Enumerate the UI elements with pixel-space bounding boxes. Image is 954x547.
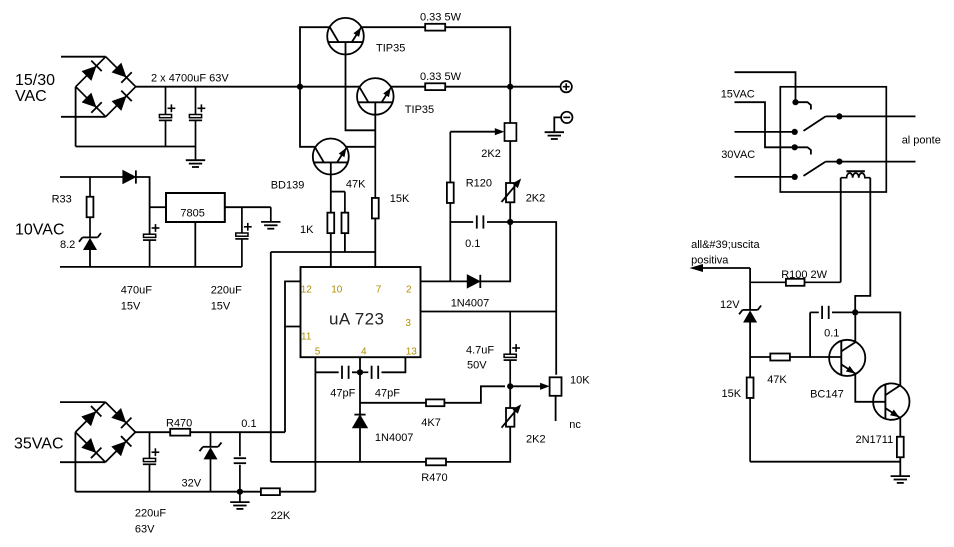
wire BC147 collector up <box>854 312 856 342</box>
contact hook 1 <box>796 102 811 109</box>
svg-text:15K: 15K <box>722 388 742 400</box>
wire diode to x510 up <box>481 222 510 281</box>
ground 35V section <box>230 492 249 509</box>
wire 35VAC input bottom <box>60 461 105 463</box>
pot 2K2 #2 <box>502 404 522 428</box>
svg-text:1N4007: 1N4007 <box>375 432 414 444</box>
trimmer 2K2 top <box>505 123 517 141</box>
label 0.33 5W #1 <box>420 12 462 24</box>
wire sel output B <box>826 161 916 163</box>
label 2 x 4700uF 63V <box>151 73 229 85</box>
wire zener to 47K node <box>749 322 751 377</box>
wire pin4 to 4K7 <box>360 402 426 404</box>
wire 0.1 branch up <box>809 312 811 357</box>
node contact 4 <box>792 174 798 180</box>
svg-text:15VAC: 15VAC <box>721 88 755 100</box>
contact hook 3 <box>795 147 811 154</box>
wire 47K to rail252 <box>344 233 346 252</box>
svg-text:12: 12 <box>301 284 313 295</box>
wire cap2 to pin13 <box>382 357 406 372</box>
wire pins 12-11 tie <box>285 281 301 326</box>
node contact 1 <box>792 99 798 105</box>
wire 7805 gnd pin <box>194 222 196 267</box>
label 47K right <box>767 374 787 386</box>
capacitor 470uF <box>143 224 159 267</box>
label 35VAC <box>14 436 64 453</box>
label 10VAC <box>15 222 65 239</box>
wire coil left lead <box>840 178 842 283</box>
svg-text:TIP35: TIP35 <box>405 104 434 116</box>
label 4.7uF 50V <box>466 345 494 372</box>
svg-text:TIP35: TIP35 <box>376 43 405 55</box>
wire R0.33#2 to output node <box>445 86 561 88</box>
capacitor 47pF #1 <box>342 366 349 379</box>
wire pot2 top to node386 <box>509 386 511 408</box>
svg-text:0.1: 0.1 <box>465 238 480 250</box>
ground at 7805 output <box>261 207 280 229</box>
resistor 22K <box>261 488 280 495</box>
wire bottom rail B1 <box>76 146 196 148</box>
svg-text:R100 2W: R100 2W <box>781 269 827 281</box>
capacitor 0.1 right <box>810 306 855 319</box>
wire 10K wiper arrow <box>510 383 549 390</box>
wire BD139 base down <box>330 162 332 212</box>
wire pin11 net down to 35V rail <box>284 327 286 433</box>
label 470uF 15V <box>121 285 152 313</box>
transistor Q4 BC147 <box>829 340 865 376</box>
svg-text:22K: 22K <box>271 510 291 522</box>
pin 10 <box>331 284 343 295</box>
wire R0.33#1 to node <box>445 27 510 87</box>
svg-text:2K2: 2K2 <box>481 148 501 160</box>
label 2K2 pot1 <box>526 193 546 205</box>
svg-text:7: 7 <box>376 284 382 295</box>
svg-text:1N4007: 1N4007 <box>451 298 490 310</box>
label all uscita positiva <box>691 239 760 267</box>
label 10K <box>570 375 590 387</box>
wire rail to TIP35 Q1 <box>300 27 330 86</box>
terminal + output <box>561 81 572 92</box>
wire B2 minus down <box>74 432 76 492</box>
label 220uF 15V <box>211 285 242 313</box>
svg-text:15V: 15V <box>121 301 141 313</box>
node x510 y386 <box>507 383 513 389</box>
transistor Q2 TIP35 <box>357 78 394 115</box>
pin 7 <box>376 284 382 295</box>
svg-text:4K7: 4K7 <box>421 417 441 429</box>
wire bottom R470 rail <box>271 461 426 463</box>
wire pin4 lead <box>359 357 361 414</box>
svg-text:R33: R33 <box>52 194 72 206</box>
capacitor 0.1 ref <box>450 215 510 228</box>
wire - terminal to ground <box>554 117 561 132</box>
wire Q2 emitter to R 0.33 #2 <box>391 86 425 88</box>
svg-text:470uF: 470uF <box>121 285 152 297</box>
relay coil <box>841 171 871 178</box>
wire 35V rail A <box>135 431 285 433</box>
label 2N1711 <box>856 434 894 446</box>
label 0.33 5W #2 <box>420 71 462 83</box>
pin 3 <box>405 318 411 329</box>
wire 15/30VAC input top <box>61 56 106 58</box>
zener 12V <box>739 306 761 323</box>
pin 4 <box>361 346 367 357</box>
capacitor 0.1 35V <box>234 432 246 492</box>
svg-text:2N1711: 2N1711 <box>856 434 894 446</box>
ground below 4700uF <box>186 160 205 167</box>
svg-text:47pF: 47pF <box>375 388 400 400</box>
wire sel output A <box>826 115 916 117</box>
svg-text:2K2: 2K2 <box>526 193 546 205</box>
wire B1 minus to bottom rail <box>75 87 77 147</box>
resistor 1K <box>327 213 334 234</box>
wire BC147 emitter to 2N1711 base <box>855 374 885 402</box>
diode D1 series <box>123 170 136 183</box>
resistor 15K <box>372 147 379 219</box>
label 15VAC <box>721 88 755 100</box>
zener 32V <box>200 432 222 492</box>
wire node222 to 10K branch <box>510 222 556 375</box>
wire bottom return <box>750 461 900 463</box>
wire 35V bottom rail B <box>75 491 315 493</box>
wire rail to BD139 collector <box>300 87 315 147</box>
svg-text:12V: 12V <box>720 299 740 311</box>
wire pin3 out <box>421 311 557 313</box>
label R470 bottom <box>421 472 447 484</box>
svg-text:7805: 7805 <box>180 207 204 219</box>
node right 0.1 junction <box>852 309 858 315</box>
svg-text:0.1: 0.1 <box>824 328 839 340</box>
wire 15K to pin7 <box>374 219 376 268</box>
wire 2K2 trimmer chain <box>509 87 511 123</box>
wire corner to zener <box>749 268 751 310</box>
label BD139 <box>271 180 305 192</box>
label 47pF #2 <box>375 388 400 400</box>
svg-text:10VAC: 10VAC <box>15 222 65 239</box>
label 2K2 pot2 <box>526 434 546 446</box>
wire 4K7 up to node386 <box>444 386 505 403</box>
label 0.1 right <box>824 328 839 340</box>
capacitor 4700uF #2 <box>189 87 205 160</box>
capacitor 4700uF #1 <box>159 87 175 147</box>
svg-text:positiva: positiva <box>691 254 729 266</box>
node contact 2 <box>792 129 798 135</box>
svg-text:220uF: 220uF <box>211 285 242 297</box>
switch box <box>780 87 886 192</box>
wire output arrow <box>690 264 751 272</box>
wire zener to rail <box>89 249 91 267</box>
wire sel input 2 <box>735 102 795 147</box>
resistor 0.33 5W #1 <box>425 24 445 31</box>
label TIP35 #2 <box>405 104 434 116</box>
label 2K2 trimmer <box>481 148 501 160</box>
IC U1 uA723 box <box>301 267 421 357</box>
node 35V ground junction <box>237 489 243 495</box>
svg-text:4: 4 <box>361 346 367 357</box>
label 22K <box>271 510 291 522</box>
resistor 4K7 <box>426 399 444 406</box>
resistor R470 35V <box>170 429 190 436</box>
svg-text:32V: 32V <box>182 478 202 490</box>
wire coil right lead <box>855 178 870 313</box>
pin 13 <box>406 346 418 357</box>
svg-text:30VAC: 30VAC <box>721 149 755 161</box>
capacitor 220uF 15V <box>235 207 251 267</box>
svg-text:13: 13 <box>406 346 418 357</box>
diode 1N4007 bottom <box>353 415 368 428</box>
label 32V <box>182 478 202 490</box>
svg-text:10K: 10K <box>570 375 590 387</box>
wire 47pF chain left <box>315 371 338 373</box>
pot 10K <box>550 377 562 396</box>
label uA 723 <box>329 310 384 329</box>
label 1N4007 top <box>451 298 490 310</box>
resistor R470 bottom <box>426 459 446 466</box>
resistor R120 <box>447 132 454 222</box>
resistor R33 <box>87 177 94 237</box>
wire BD139 emitter to Q2 base <box>346 146 375 148</box>
pin 2 <box>406 284 412 295</box>
transistor Q3 BD139 <box>313 139 349 175</box>
label al ponte <box>902 134 941 146</box>
wire emitter res down <box>899 457 901 476</box>
label 0.1 ref <box>465 238 480 250</box>
label 4K7 <box>421 417 441 429</box>
svg-text:47K: 47K <box>767 374 787 386</box>
svg-text:uA 723: uA 723 <box>329 310 384 329</box>
wire pin5 down <box>314 357 316 492</box>
regulator 7805 <box>166 193 225 222</box>
node lever B pivot <box>836 159 842 165</box>
label 15K right <box>722 388 742 400</box>
svg-text:220uF: 220uF <box>135 508 166 520</box>
label 47K <box>346 179 366 191</box>
wire D1 to corner <box>136 177 149 234</box>
node rail junction at x300 <box>297 84 303 90</box>
svg-text:R470: R470 <box>166 417 192 429</box>
label BC147 <box>810 388 844 400</box>
wire 7805 output <box>226 206 271 208</box>
wire base jog to 47K <box>331 191 345 193</box>
wire 10VAC input top <box>60 176 123 178</box>
label 0.1 35V <box>241 418 256 430</box>
svg-text:50V: 50V <box>467 360 487 372</box>
svg-text:47K: 47K <box>346 179 366 191</box>
switch lever A <box>804 116 826 130</box>
pin 11 <box>301 331 312 342</box>
svg-text:15/30: 15/30 <box>15 72 55 89</box>
wire cap1 to node <box>352 371 360 373</box>
label nc <box>569 419 581 431</box>
svg-text:R470: R470 <box>421 472 447 484</box>
wire 10VAC bottom rail <box>60 266 242 268</box>
wire 47K to BC147 base <box>790 356 841 358</box>
svg-text:35VAC: 35VAC <box>14 436 64 453</box>
svg-text:47pF: 47pF <box>330 388 355 400</box>
resistor emitter 2N1711 <box>897 437 904 458</box>
label R100 2W <box>781 269 827 281</box>
pot 2K2 #1 <box>502 179 522 203</box>
wire to 7805 input <box>150 206 166 208</box>
svg-text:15K: 15K <box>390 193 410 205</box>
node contact 3 <box>792 144 798 150</box>
wire sel input 3 <box>735 131 795 133</box>
wire long vertical x270 <box>270 252 272 462</box>
bridge rectifier B1 (15/30VAC) <box>76 57 136 117</box>
diode 1N4007 pin2 <box>467 275 480 288</box>
switch lever B <box>804 162 826 176</box>
svg-text:63V: 63V <box>135 524 155 536</box>
wire Q1 emitter to R 0.33 #1 <box>361 26 425 28</box>
label R33 <box>52 194 72 206</box>
node output junction <box>507 84 513 90</box>
wire R470 to pot2 <box>446 427 510 462</box>
pin 5 <box>315 346 321 357</box>
resistor 15K right <box>747 377 754 461</box>
node x510 y222 <box>507 219 513 225</box>
svg-text:al ponte: al ponte <box>902 134 941 146</box>
bridge rectifier B2 (35VAC) <box>75 402 135 462</box>
resistor 0.33 5W #2 <box>425 83 445 90</box>
wire 10K nc <box>555 396 557 421</box>
resistor 47K <box>342 192 349 234</box>
ground at - terminal <box>545 132 564 139</box>
wire node to 2N1711 collector <box>855 312 900 386</box>
label 1N4007 bottom <box>375 432 414 444</box>
transistor Q5 2N1711 <box>873 383 909 419</box>
label 12V <box>720 299 740 311</box>
label 8.2 <box>60 239 75 251</box>
transistor Q1 TIP35 <box>327 18 364 55</box>
svg-text:5: 5 <box>315 346 321 357</box>
svg-text:8.2: 8.2 <box>60 239 75 251</box>
svg-text:1K: 1K <box>300 224 314 236</box>
svg-text:2 x 4700uF 63V: 2 x 4700uF 63V <box>151 73 229 85</box>
wire 2N1711 emitter <box>899 417 901 437</box>
node pin4 junction <box>357 369 363 375</box>
label 1K <box>300 224 314 236</box>
wire rail y252 <box>271 251 376 253</box>
zener 8.2V <box>79 233 101 250</box>
svg-text:4.7uF: 4.7uF <box>466 345 494 357</box>
wire pin2 out <box>421 280 468 282</box>
wire main + rail <box>136 86 360 88</box>
svg-text:15V: 15V <box>211 301 231 313</box>
svg-text:BC147: BC147 <box>810 388 844 400</box>
label TIP35 #1 <box>376 43 405 55</box>
label 220uF 63V <box>135 508 166 536</box>
wire diode to bottom wire <box>359 428 361 462</box>
svg-text:nc: nc <box>569 419 581 431</box>
terminal - output <box>561 112 572 123</box>
capacitor 220uF 63V <box>143 432 159 492</box>
wire 47K feed <box>750 356 770 358</box>
svg-text:0.1: 0.1 <box>241 418 256 430</box>
wire 1K to pin10 <box>330 233 332 267</box>
wire pot1 to node <box>509 202 511 222</box>
svg-text:10: 10 <box>331 284 343 295</box>
svg-text:all&#39;uscita: all&#39;uscita <box>691 239 760 251</box>
pin 12 <box>301 284 313 295</box>
wire trimmer to pot1 <box>509 141 511 183</box>
resistor 47K right <box>770 354 790 361</box>
wire R120 down to pin2 wire <box>449 222 451 281</box>
label 15K <box>390 193 410 205</box>
label 15/30 VAC <box>15 72 55 105</box>
label R470 35V <box>166 417 192 429</box>
svg-text:2: 2 <box>406 284 412 295</box>
capacitor 4.7uF <box>504 312 520 387</box>
label R120 <box>466 178 492 190</box>
label 47pF #1 <box>330 388 355 400</box>
wire 15/30VAC input bottom <box>61 116 106 118</box>
node lever A pivot <box>836 113 842 119</box>
wire sel input 1 <box>735 72 796 102</box>
wire 35VAC input top <box>60 401 105 403</box>
svg-text:VAC: VAC <box>15 88 47 105</box>
svg-text:3: 3 <box>405 318 411 329</box>
svg-text:11: 11 <box>301 331 312 342</box>
svg-text:BD139: BD139 <box>271 180 305 192</box>
wire sel input 4 <box>735 176 795 178</box>
svg-text:2K2: 2K2 <box>526 434 546 446</box>
wire Q1 base to Q2 base <box>346 42 376 130</box>
wire Q2 base down <box>374 102 376 147</box>
ground right circuit <box>891 476 910 483</box>
capacitor 47pF #2 <box>360 366 378 379</box>
svg-text:R120: R120 <box>466 178 492 190</box>
wire trimmer arrow <box>450 128 504 135</box>
svg-text:0.33 5W: 0.33 5W <box>420 71 462 83</box>
svg-text:0.33 5W: 0.33 5W <box>420 12 462 24</box>
resistor R100 2W <box>750 279 841 286</box>
label 30VAC <box>721 149 755 161</box>
